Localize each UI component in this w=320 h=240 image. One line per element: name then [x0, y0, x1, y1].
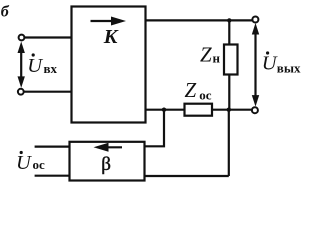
wire input bottom — [24, 91, 72, 93]
svg-text:U: U — [16, 152, 32, 174]
beta direction arrow — [94, 143, 123, 152]
wire feedback branch to beta — [145, 110, 165, 147]
wire input top — [25, 36, 72, 38]
resistor Zoc — [185, 104, 213, 116]
wire Zn upper — [228, 20, 230, 44]
output terminal top — [252, 17, 258, 23]
node junction feedback left — [162, 108, 166, 112]
label Uvx — [27, 53, 57, 77]
svg-text:ос: ос — [33, 157, 46, 172]
wire oc bottom — [35, 175, 70, 177]
svg-text:б: б — [1, 4, 10, 21]
node junction top — [227, 18, 231, 22]
K gain direction arrow — [91, 17, 127, 26]
svg-text:K: K — [103, 26, 119, 48]
label Zn — [200, 43, 221, 67]
svg-text:U: U — [27, 55, 43, 77]
svg-text:ос: ос — [199, 88, 212, 103]
wire bottom — [145, 175, 229, 177]
Uvyh measurement arrow — [252, 23, 259, 107]
resistor Zn — [224, 45, 238, 75]
amplifier U1 block K — [72, 7, 146, 123]
label Uvyh — [262, 51, 301, 75]
input terminal top — [19, 35, 25, 41]
wire output vertical lower — [228, 110, 230, 176]
wire Zn lower — [228, 75, 230, 110]
wire output top — [146, 19, 253, 21]
svg-text:н: н — [213, 51, 221, 66]
Uvx measurement arrow — [18, 42, 25, 88]
label Zoc — [185, 78, 212, 103]
output terminal bottom — [252, 107, 258, 113]
svg-text:U: U — [262, 53, 278, 75]
node junction feedback right — [227, 108, 231, 112]
label Uoc — [16, 151, 45, 174]
svg-text:Z: Z — [200, 43, 212, 67]
svg-text:вх: вх — [44, 61, 58, 76]
wire feedback horizontal — [146, 109, 252, 111]
svg-text:Z: Z — [185, 78, 197, 102]
svg-text:вых: вых — [277, 61, 301, 76]
wire oc top — [35, 146, 70, 148]
svg-text:β: β — [101, 154, 111, 175]
input terminal bottom — [18, 89, 24, 95]
feedback block beta — [70, 142, 145, 181]
